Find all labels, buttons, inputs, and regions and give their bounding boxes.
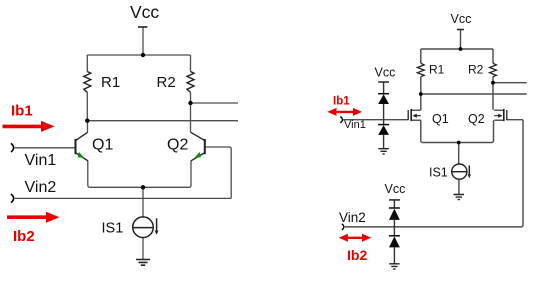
svg-text:Q1: Q1 — [92, 137, 113, 154]
svg-text:Ib2: Ib2 — [13, 228, 35, 245]
svg-text:Vin2: Vin2 — [25, 179, 57, 196]
svg-text:Vcc: Vcc — [451, 12, 472, 26]
svg-text:Q2: Q2 — [468, 112, 485, 126]
svg-text:IS1: IS1 — [429, 166, 448, 180]
svg-text:Vcc: Vcc — [385, 182, 406, 196]
svg-text:IS1: IS1 — [102, 221, 124, 237]
svg-text:Vcc: Vcc — [130, 2, 159, 22]
svg-text:R2: R2 — [468, 63, 484, 77]
svg-text:R2: R2 — [157, 74, 176, 91]
svg-text:Vin1: Vin1 — [25, 152, 57, 169]
svg-text:Q1: Q1 — [432, 112, 449, 126]
svg-text:R1: R1 — [429, 63, 445, 77]
svg-text:Vin2: Vin2 — [339, 210, 366, 225]
svg-text:Ib1: Ib1 — [11, 102, 33, 119]
svg-text:R1: R1 — [101, 74, 120, 91]
svg-text:Vcc: Vcc — [375, 66, 396, 80]
svg-text:Ib1: Ib1 — [333, 96, 350, 108]
svg-text:Ib2: Ib2 — [347, 247, 367, 263]
svg-text:Vin1: Vin1 — [344, 119, 366, 131]
svg-text:Q2: Q2 — [167, 137, 188, 154]
